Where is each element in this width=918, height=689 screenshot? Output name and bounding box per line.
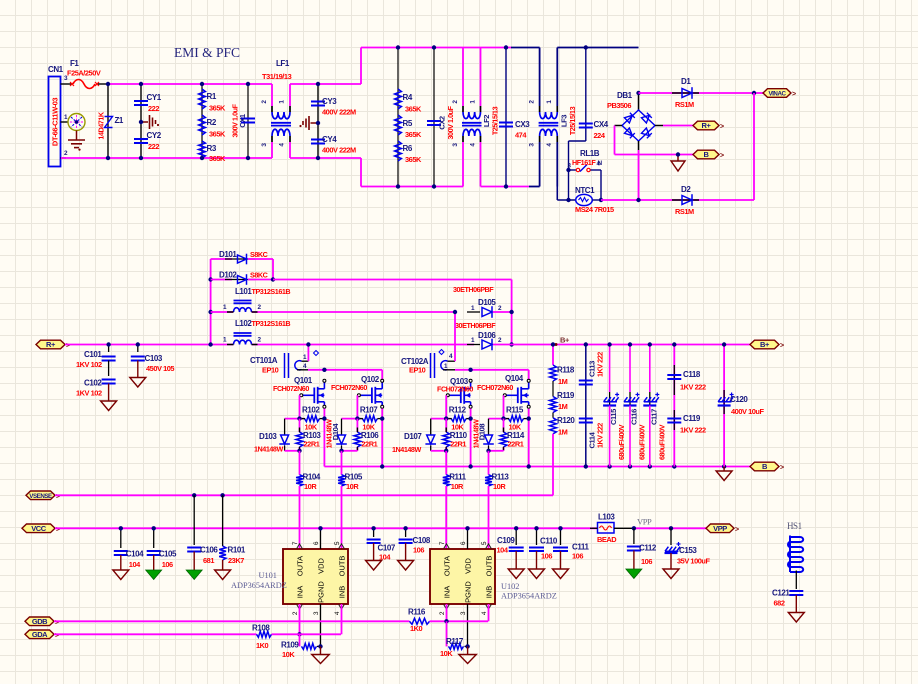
svg-text:B+: B+: [560, 336, 570, 345]
svg-text:C110: C110: [540, 537, 558, 546]
svg-text:CN1: CN1: [48, 65, 64, 74]
svg-text:682: 682: [774, 599, 785, 608]
svg-text:INB: INB: [485, 586, 494, 599]
svg-text:106: 106: [413, 546, 424, 555]
svg-text:10R: 10R: [304, 482, 317, 491]
svg-text:R107: R107: [360, 406, 378, 415]
svg-text:R102: R102: [302, 406, 320, 415]
svg-text:365K: 365K: [405, 155, 422, 164]
svg-text:T31/19/13: T31/19/13: [262, 72, 292, 81]
svg-text:C103: C103: [145, 354, 163, 363]
svg-text:C101: C101: [84, 350, 102, 359]
svg-text:R3: R3: [207, 144, 217, 153]
svg-text:R116: R116: [408, 608, 426, 617]
svg-text:365K: 365K: [209, 154, 226, 163]
svg-text:365K: 365K: [405, 105, 422, 114]
svg-text:U101: U101: [259, 571, 277, 580]
svg-text:D102: D102: [219, 271, 237, 280]
svg-text:>: >: [56, 526, 60, 533]
svg-text:T25/15/13: T25/15/13: [568, 106, 577, 135]
svg-text:R4: R4: [403, 93, 413, 102]
svg-text:C109: C109: [497, 536, 515, 545]
svg-text:VPP: VPP: [713, 524, 727, 533]
svg-text:365K: 365K: [209, 104, 226, 113]
svg-text:>: >: [780, 465, 784, 472]
svg-text:R+: R+: [46, 340, 56, 349]
svg-text:ADP3654ARDZ: ADP3654ARDZ: [501, 592, 557, 601]
svg-text:OUTB: OUTB: [485, 556, 494, 577]
svg-text:C153: C153: [679, 546, 697, 555]
svg-text:R120: R120: [557, 416, 575, 425]
svg-text:EP10: EP10: [262, 366, 279, 375]
svg-text:TP312S161B: TP312S161B: [252, 287, 291, 296]
svg-text:C105: C105: [159, 550, 177, 559]
svg-text:EMI & PFC: EMI & PFC: [174, 45, 240, 60]
svg-text:L103: L103: [598, 513, 615, 522]
svg-text:104: 104: [379, 553, 391, 562]
svg-text:VCC: VCC: [31, 524, 47, 533]
svg-text:HF161F: HF161F: [572, 158, 596, 167]
svg-text:U102: U102: [501, 582, 519, 591]
svg-text:450V 105: 450V 105: [146, 364, 174, 373]
svg-text:R1: R1: [207, 92, 217, 101]
svg-text:>: >: [55, 619, 59, 626]
svg-text:1N4148W: 1N4148W: [472, 419, 481, 448]
svg-text:VDD: VDD: [464, 558, 473, 574]
svg-text:30ETH06PBF: 30ETH06PBF: [455, 321, 496, 330]
svg-text:INA: INA: [296, 586, 305, 599]
svg-text:>: >: [735, 526, 739, 533]
svg-text:VDD: VDD: [317, 558, 326, 574]
svg-text:R101: R101: [228, 546, 246, 555]
svg-text:D105: D105: [478, 298, 496, 307]
svg-text:FCH072N60: FCH072N60: [273, 384, 309, 393]
svg-text:365K: 365K: [209, 130, 226, 139]
svg-text:RS1M: RS1M: [675, 207, 694, 216]
svg-text:1K0: 1K0: [256, 641, 269, 650]
svg-text:CX3: CX3: [515, 120, 530, 129]
svg-text:C102: C102: [84, 379, 102, 388]
svg-text:R6: R6: [403, 144, 413, 153]
svg-text:400V 222M: 400V 222M: [322, 108, 356, 117]
svg-text:R117: R117: [446, 637, 464, 646]
svg-text:BEAD: BEAD: [597, 535, 617, 544]
svg-text:D1: D1: [681, 77, 691, 86]
svg-text:1N4148W: 1N4148W: [392, 445, 421, 454]
svg-text:1KV 102: 1KV 102: [76, 389, 102, 398]
svg-text:T25/15/13: T25/15/13: [491, 106, 500, 135]
svg-text:R104: R104: [303, 473, 321, 482]
svg-text:22R1: 22R1: [361, 440, 377, 449]
svg-text:R119: R119: [557, 391, 575, 400]
svg-text:22R1: 22R1: [304, 440, 320, 449]
svg-text:1KV 222: 1KV 222: [680, 383, 706, 392]
svg-text:106: 106: [641, 557, 652, 566]
svg-text:C121: C121: [772, 589, 790, 598]
svg-text:CT101A: CT101A: [250, 356, 278, 365]
svg-text:C117: C117: [649, 409, 658, 425]
svg-text:FCH072N60: FCH072N60: [477, 383, 513, 392]
svg-text:PB3506: PB3506: [607, 101, 631, 110]
svg-text:S8KC: S8KC: [250, 250, 268, 259]
svg-text:10K: 10K: [282, 650, 295, 659]
svg-text:R111: R111: [449, 473, 466, 482]
svg-text:FCH072N60: FCH072N60: [331, 383, 367, 392]
svg-text:L101: L101: [235, 287, 252, 296]
svg-text:GDA: GDA: [32, 630, 48, 639]
svg-text:R2: R2: [207, 118, 217, 127]
svg-text:VINAC: VINAC: [768, 91, 786, 98]
svg-text:CY2: CY2: [147, 131, 162, 140]
svg-text:400V 10uF: 400V 10uF: [731, 407, 764, 416]
svg-text:10K: 10K: [440, 649, 453, 658]
svg-text:C116: C116: [630, 409, 639, 425]
svg-text:C106: C106: [200, 546, 218, 555]
svg-text:PGND: PGND: [317, 581, 326, 603]
svg-text:LF1: LF1: [276, 59, 290, 68]
svg-text:NTC1: NTC1: [575, 186, 595, 195]
svg-text:1M: 1M: [558, 428, 568, 437]
svg-text:D106: D106: [478, 331, 496, 340]
svg-text:OUTA: OUTA: [296, 556, 305, 576]
svg-text:22R1: 22R1: [508, 440, 524, 449]
svg-text:C107: C107: [378, 544, 396, 553]
svg-text:OUTA: OUTA: [443, 556, 452, 576]
svg-text:R115: R115: [506, 406, 524, 415]
svg-text:35V 100uF: 35V 100uF: [677, 557, 710, 566]
svg-text:C111: C111: [572, 543, 589, 552]
svg-text:F25A/250V: F25A/250V: [67, 69, 101, 78]
svg-text:R112: R112: [449, 406, 467, 415]
svg-text:1N4148W: 1N4148W: [325, 419, 334, 448]
svg-text:MS24 7R015: MS24 7R015: [575, 205, 614, 214]
svg-text:30ETH06PBF: 30ETH06PBF: [453, 285, 494, 294]
svg-text:1KV 102: 1KV 102: [76, 360, 102, 369]
svg-text:22R1: 22R1: [450, 440, 466, 449]
svg-text:300V 1.0uF: 300V 1.0uF: [446, 105, 455, 139]
svg-text:RS1M: RS1M: [675, 100, 694, 109]
svg-text:R105: R105: [345, 473, 363, 482]
svg-text:>: >: [55, 632, 59, 639]
svg-text:224: 224: [594, 131, 606, 140]
svg-text:222: 222: [148, 142, 159, 151]
svg-text:10R: 10R: [346, 482, 359, 491]
svg-text:474: 474: [515, 131, 527, 140]
svg-text:D101: D101: [219, 250, 237, 259]
svg-text:1M: 1M: [558, 402, 568, 411]
svg-text:C112: C112: [639, 544, 657, 553]
svg-text:R109: R109: [281, 641, 299, 650]
svg-text:VSENSE: VSENSE: [29, 493, 52, 500]
svg-text:L102: L102: [235, 319, 252, 328]
svg-text:104: 104: [129, 560, 141, 569]
svg-text:TP312S161B: TP312S161B: [252, 319, 291, 328]
svg-text:Z1: Z1: [115, 116, 124, 125]
svg-text:C120: C120: [730, 395, 748, 404]
svg-text:1M: 1M: [558, 377, 568, 386]
svg-text:>: >: [56, 493, 60, 500]
svg-text:CY1: CY1: [147, 93, 162, 102]
svg-text:365K: 365K: [405, 130, 422, 139]
svg-text:104: 104: [497, 546, 509, 555]
svg-text:23K7: 23K7: [228, 556, 244, 565]
svg-text:FCH072N60: FCH072N60: [437, 385, 473, 394]
svg-text:106: 106: [572, 552, 583, 561]
svg-text:PGND: PGND: [464, 581, 473, 603]
svg-text:1KV 222: 1KV 222: [680, 426, 706, 435]
svg-text:D2: D2: [681, 185, 691, 194]
svg-text:B+: B+: [760, 340, 770, 349]
svg-text:>: >: [66, 343, 70, 350]
svg-text:106: 106: [541, 552, 552, 561]
svg-text:R108: R108: [252, 624, 270, 633]
svg-text:D107: D107: [404, 432, 422, 441]
svg-text:>: >: [720, 153, 724, 160]
svg-text:CY4: CY4: [322, 135, 337, 144]
svg-text:GDB: GDB: [32, 617, 48, 626]
svg-text:>: >: [720, 124, 724, 131]
svg-text:C115: C115: [609, 408, 618, 425]
svg-text:C104: C104: [126, 550, 144, 559]
svg-text:400V 222M: 400V 222M: [322, 146, 356, 155]
svg-text:CX1: CX1: [238, 113, 247, 128]
svg-text:680uF/400V: 680uF/400V: [638, 424, 647, 460]
svg-text:R+: R+: [702, 121, 712, 130]
svg-text:681: 681: [203, 556, 214, 565]
svg-text:DT-66-C11W-03: DT-66-C11W-03: [51, 98, 60, 146]
svg-text:D103: D103: [259, 432, 277, 441]
svg-text:14D471K: 14D471K: [97, 111, 106, 139]
svg-text:F1: F1: [70, 59, 79, 68]
svg-text:CX4: CX4: [594, 120, 609, 129]
svg-text:RL1B: RL1B: [580, 149, 600, 158]
svg-text:INA: INA: [443, 586, 452, 599]
svg-text:680uF/400V: 680uF/400V: [617, 424, 626, 460]
svg-text:OUTB: OUTB: [338, 556, 347, 577]
svg-text:10R: 10R: [451, 482, 464, 491]
svg-text:1N4148W: 1N4148W: [254, 445, 283, 454]
svg-text:R113: R113: [492, 473, 510, 482]
svg-text:C108: C108: [413, 536, 431, 545]
svg-text:>: >: [792, 91, 796, 98]
svg-text:C118: C118: [683, 370, 701, 379]
svg-text:222: 222: [148, 104, 159, 113]
svg-text:VPP: VPP: [637, 517, 652, 527]
svg-text:106: 106: [162, 560, 173, 569]
svg-text:10R: 10R: [493, 482, 506, 491]
svg-text:ADP3654ARDZ: ADP3654ARDZ: [231, 581, 287, 590]
svg-text:Q104: Q104: [505, 374, 524, 383]
svg-text:HS1: HS1: [787, 521, 802, 531]
svg-text:DB1: DB1: [617, 91, 633, 100]
svg-text:1K0: 1K0: [410, 624, 423, 633]
svg-text:R5: R5: [403, 119, 413, 128]
svg-text:INB: INB: [338, 586, 347, 599]
svg-text:S8KC: S8KC: [250, 271, 268, 280]
svg-text:C119: C119: [683, 414, 701, 423]
svg-text:CY3: CY3: [322, 97, 337, 106]
svg-text:R118: R118: [557, 366, 575, 375]
svg-text:1KV 222: 1KV 222: [596, 423, 605, 448]
svg-text:EP10: EP10: [409, 366, 426, 375]
svg-text:680uF/400V: 680uF/400V: [657, 424, 666, 460]
svg-text:>: >: [780, 343, 784, 350]
svg-text:1KV 222: 1KV 222: [596, 352, 605, 377]
